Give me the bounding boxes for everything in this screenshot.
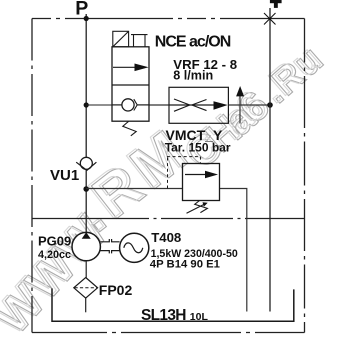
- plug X at T port: [264, 13, 276, 25]
- valve return spring: [123, 121, 136, 135]
- coupling shaft: [100, 239, 119, 253]
- filter FP02: [74, 278, 98, 299]
- pump PG09: [72, 232, 100, 260]
- wire below VU1 to pump: [85, 170, 87, 233]
- wire relief outlet to tank: [220, 189, 247, 312]
- boundary left edge: [31, 19, 33, 333]
- svg-text:PG09: PG09: [38, 233, 71, 248]
- node relief branch dot: [83, 186, 89, 192]
- node valve branch dot: [84, 102, 89, 107]
- wire T line: [269, 8, 271, 312]
- relief valve VMCT_Y: [167, 157, 220, 214]
- svg-text:.Ru: .Ru: [253, 38, 329, 112]
- flow arrow head in valve: [135, 64, 149, 72]
- flow direction arrow (up): [239, 95, 241, 124]
- svg-text:4,20cc: 4,20cc: [38, 249, 71, 261]
- svg-text:T408: T408: [151, 230, 181, 245]
- node P junction dot: [84, 16, 89, 21]
- solenoid valve U1 NCE ac/ON: [112, 31, 149, 136]
- boundary bottom edge: [32, 332, 305, 334]
- enclosure boundary (dash-dot box): [32, 19, 305, 333]
- boundary top edge: [32, 18, 305, 20]
- motor T408: [120, 233, 149, 262]
- solenoid box: [113, 31, 129, 47]
- node T line junction dot: [267, 102, 273, 108]
- wire branch to NCE valve: [86, 104, 112, 106]
- wire relief branch: [86, 188, 182, 190]
- svg-text:FP02: FP02: [99, 282, 133, 298]
- port T label: [270, 0, 282, 3]
- wire valve to VRF: [149, 104, 169, 106]
- svg-text:Tar. 150 bar: Tar. 150 bar: [165, 140, 231, 154]
- manual override: [131, 34, 148, 36]
- svg-text:4P B14 90 E1: 4P B14 90 E1: [150, 258, 220, 270]
- svg-text:10L: 10L: [190, 311, 209, 323]
- flow arrow in valve: [113, 66, 137, 68]
- tank SL13H: [52, 288, 294, 321]
- wire VRF to T line: [228, 104, 270, 106]
- boundary right edge: [304, 19, 306, 333]
- relief valve adjust arrow: [187, 204, 205, 213]
- wire pump suction: [85, 261, 87, 278]
- svg-text:8 l/min: 8 l/min: [173, 69, 213, 83]
- wire P stub and pump line: [85, 14, 87, 158]
- boundary internal divider: [32, 218, 305, 220]
- valve body: [112, 47, 149, 121]
- svg-text:NCE ac/ON: NCE ac/ON: [155, 33, 231, 50]
- check valve VU1: [76, 157, 96, 170]
- relief valve spring: [195, 201, 208, 213]
- wire filter suction into tank: [85, 298, 87, 312]
- flow regulator VRF 12-8: [169, 87, 228, 123]
- relief valve pilot line (dashed): [167, 157, 201, 189]
- check valve in valve: [122, 99, 134, 111]
- svg-text:VU1: VU1: [50, 167, 79, 184]
- svg-text:SL13H: SL13H: [141, 307, 186, 324]
